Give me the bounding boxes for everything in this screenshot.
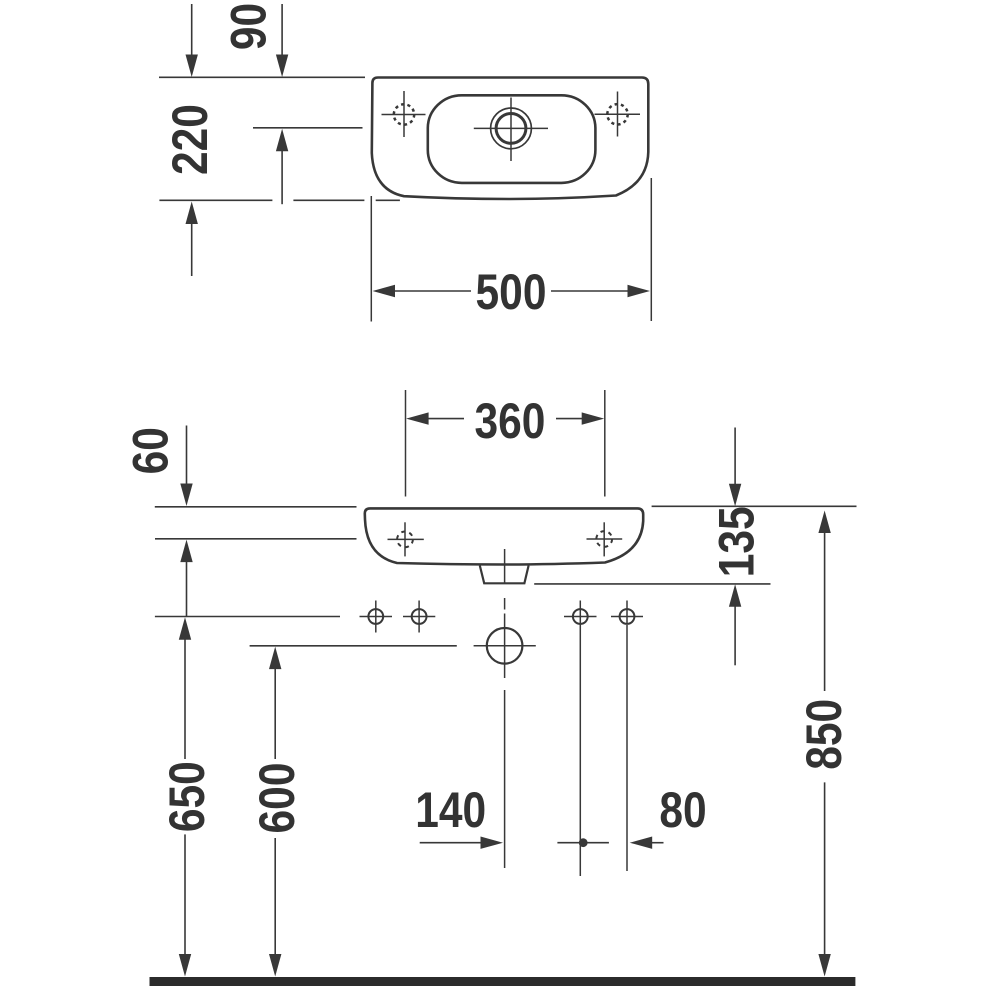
svg-text:80: 80 <box>659 782 706 838</box>
svg-text:60: 60 <box>122 427 178 474</box>
svg-text:500: 500 <box>476 264 547 320</box>
svg-text:90: 90 <box>220 3 276 50</box>
svg-text:360: 360 <box>474 393 545 449</box>
svg-text:135: 135 <box>708 506 764 577</box>
svg-text:650: 650 <box>159 761 215 832</box>
svg-text:220: 220 <box>162 104 218 175</box>
svg-text:140: 140 <box>415 782 486 838</box>
svg-text:850: 850 <box>796 699 852 770</box>
svg-text:600: 600 <box>249 763 305 834</box>
